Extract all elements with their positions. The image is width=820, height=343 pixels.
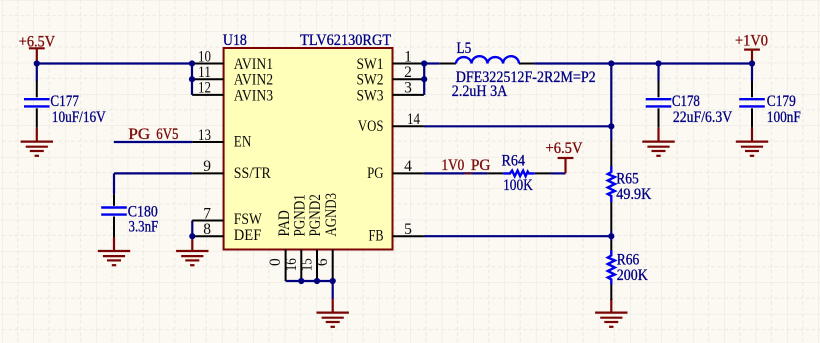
svg-text:SW3: SW3 <box>357 87 384 104</box>
svg-text:R66: R66 <box>617 252 640 269</box>
svg-text:2.2uH 3A: 2.2uH 3A <box>452 83 508 100</box>
svg-text:+6.5V: +6.5V <box>546 140 584 157</box>
svg-text:10uF/16V: 10uF/16V <box>52 109 107 126</box>
svg-text:3.3nF: 3.3nF <box>129 219 159 236</box>
svg-text:16: 16 <box>283 258 300 271</box>
svg-text:SW2: SW2 <box>357 72 384 89</box>
svg-text:PG: PG <box>471 157 491 174</box>
svg-text:SW1: SW1 <box>357 56 384 73</box>
svg-text:1: 1 <box>404 48 412 65</box>
svg-text:200K: 200K <box>617 267 649 284</box>
svg-text:PG: PG <box>367 165 383 182</box>
svg-text:14: 14 <box>407 111 420 128</box>
svg-text:49.9K: 49.9K <box>616 186 652 203</box>
svg-text:AGND3: AGND3 <box>323 193 340 237</box>
svg-text:22uF/6.3V: 22uF/6.3V <box>673 109 733 126</box>
svg-text:PGND2: PGND2 <box>307 194 324 236</box>
svg-text:15: 15 <box>299 258 316 271</box>
svg-text:C177: C177 <box>50 93 79 110</box>
svg-text:R64: R64 <box>502 152 526 169</box>
svg-text:VOS: VOS <box>358 118 384 135</box>
svg-text:C179: C179 <box>767 93 796 110</box>
svg-text:L5: L5 <box>457 40 472 57</box>
svg-text:11: 11 <box>198 64 211 81</box>
svg-text:100K: 100K <box>503 177 533 194</box>
svg-text:TLV62130RGT: TLV62130RGT <box>300 32 391 49</box>
svg-text:0: 0 <box>267 258 284 266</box>
svg-text:PGND1: PGND1 <box>292 194 309 236</box>
svg-text:SS/TR: SS/TR <box>234 165 272 182</box>
svg-text:2: 2 <box>404 64 412 81</box>
svg-text:+1V0: +1V0 <box>735 33 768 50</box>
svg-text:U18: U18 <box>223 32 247 49</box>
svg-text:AVIN1: AVIN1 <box>234 56 273 73</box>
svg-text:AVIN3: AVIN3 <box>234 87 274 104</box>
svg-text:AVIN2: AVIN2 <box>234 72 273 89</box>
svg-text:1V0: 1V0 <box>442 157 465 174</box>
svg-text:12: 12 <box>198 80 211 97</box>
svg-text:DEF: DEF <box>234 227 262 244</box>
svg-text:6V5: 6V5 <box>156 126 178 143</box>
svg-text:7: 7 <box>203 205 211 222</box>
svg-text:C178: C178 <box>672 93 700 110</box>
svg-text:13: 13 <box>198 127 211 144</box>
svg-text:FB: FB <box>369 228 384 245</box>
svg-text:100nF: 100nF <box>767 109 801 126</box>
svg-text:9: 9 <box>203 158 211 175</box>
svg-text:10: 10 <box>198 48 211 65</box>
svg-text:8: 8 <box>203 221 211 238</box>
svg-text:4: 4 <box>404 158 412 175</box>
svg-text:PG: PG <box>128 126 150 143</box>
svg-text:+6.5V: +6.5V <box>19 33 56 50</box>
svg-text:5: 5 <box>404 221 412 238</box>
svg-text:PAD: PAD <box>276 210 293 236</box>
svg-text:6: 6 <box>314 258 331 266</box>
svg-text:3: 3 <box>404 80 412 97</box>
svg-text:FSW: FSW <box>234 211 262 228</box>
svg-text:R65: R65 <box>616 171 639 188</box>
svg-text:EN: EN <box>234 134 252 151</box>
